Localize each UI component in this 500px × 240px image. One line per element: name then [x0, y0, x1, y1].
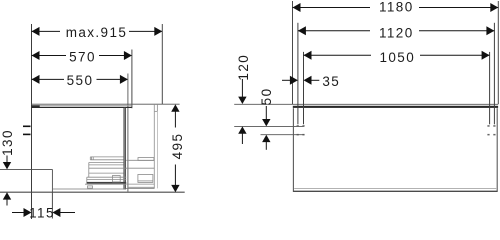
dimension 1050 line right segment [420, 54, 490, 56]
extension line 1050 left [303, 52, 305, 124]
cabinet top slab bottom dark line [32, 106, 132, 108]
svg-text:495: 495 [170, 133, 185, 160]
dimension 130 down arrow [3, 162, 11, 169]
svg-text:35: 35 [322, 74, 340, 89]
dimension 115 arrow pointing right [24, 208, 32, 217]
dimension 550 arrow right [120, 75, 128, 84]
siphon base line 2 [128, 186, 155, 188]
dimension 1180 line left segment [293, 7, 371, 9]
svg-text:550: 550 [67, 73, 94, 88]
extension line 1180 right [497, 1, 499, 104]
small foot bottom left [88, 186, 93, 188]
drawer tray second line [87, 178, 126, 180]
hidden drawer dash marks right column C [487, 125, 489, 127]
drawer tray top line [87, 176, 126, 178]
extension line 570 right [131, 50, 133, 109]
svg-text:570: 570 [69, 49, 96, 64]
dimension max.915 arrow right [154, 27, 162, 36]
extension line 1050 right [489, 52, 491, 124]
dimension 550 arrow left [32, 75, 40, 84]
dimension max.915 line left segment [32, 30, 61, 32]
extension line notch front (115 dim) [51, 192, 53, 218]
svg-text:130: 130 [0, 129, 15, 156]
dimension 495 upper tail [174, 112, 176, 128]
svg-text:1050: 1050 [379, 50, 415, 65]
dimension 1050 arrow right [482, 51, 490, 60]
dimension 120 lower tail [241, 133, 243, 144]
dimension 495 up arrow [171, 104, 179, 111]
dimension 1180 arrow left [293, 3, 301, 12]
dimension 115 lead line left [12, 212, 25, 214]
dimension 570 arrow left [32, 51, 40, 60]
svg-text:120: 120 [236, 54, 251, 81]
console top line side view [32, 103, 180, 105]
cabinet top slab left end bar [32, 105, 40, 108]
small inner box left [113, 176, 121, 182]
drawer box lower line [89, 172, 124, 174]
siphon body box [138, 175, 153, 183]
dimension 35 arrow pointing right [290, 76, 298, 85]
dimension 120 down arrow [238, 97, 246, 104]
extension line max.915 right [161, 24, 163, 104]
svg-text:1120: 1120 [379, 25, 414, 40]
drawer front panel (dark section lines) [124, 108, 127, 190]
drawer box upper line [89, 162, 124, 164]
cabinet top slab inner top line [40, 104, 132, 106]
hidden drawer dash marks left column B [297, 125, 299, 127]
basin apron inner edge [153, 105, 155, 189]
svg-text:115: 115 [29, 205, 55, 220]
toe notch front edge [51, 169, 53, 192]
console slab band front view [293, 106, 498, 108]
dimension 570 arrow right [124, 51, 132, 60]
cabinet bottom line front view [293, 190, 497, 192]
drawer bottom dark band [87, 182, 126, 184]
basin apron step [154, 110, 157, 112]
dimension 120 upper tail [241, 79, 243, 97]
cabinet body left edge front view [292, 108, 294, 192]
dimension 1120 line left segment [298, 30, 370, 32]
cabinet body right edge front view [496, 108, 498, 192]
dimension 1180 arrow right [490, 3, 498, 12]
drawer rail bottom line [90, 159, 123, 161]
extension line 550 / cabinet front face [127, 74, 129, 192]
wire wall extension line (back of cabinet) [31, 24, 33, 219]
dimension 35 arrow pointing left [304, 76, 312, 85]
siphon shelf line [126, 159, 154, 161]
drawer rail tick 2 [92, 157, 94, 160]
dimension 1120 arrow left [298, 26, 306, 35]
dimension 570 line left segment [32, 55, 67, 57]
dimension 35 lead line left [282, 79, 291, 81]
hidden drawer dash marks left column C [302, 125, 304, 127]
dimension 1050 arrow left [304, 51, 312, 60]
extension line for 120/50 dims (drawer runner level) [234, 125, 304, 127]
dimension 570 line right segment [99, 55, 132, 57]
dimension 35 tail right [311, 79, 319, 81]
drawer box mid line [89, 167, 155, 169]
drawer rail left edge [89, 157, 91, 160]
dimension 115 tail right [60, 212, 75, 214]
dimension 495 lower tail [174, 165, 176, 186]
dimension 1120 arrow right [486, 26, 494, 35]
dimension 50 up arrow [262, 135, 270, 142]
drawer box second line [89, 164, 124, 166]
dimension 50 upper tail [265, 106, 267, 119]
wall mounting bracket tick upper [23, 126, 31, 128]
extension line 1180 left [292, 1, 294, 104]
dimension 550 line left segment [32, 78, 65, 80]
siphon top rect [138, 158, 154, 161]
dimension 550 line right segment [97, 78, 128, 80]
svg-text:50: 50 [259, 87, 274, 105]
dimension 50 down arrow [262, 119, 270, 126]
dimension 115 arrow pointing left [52, 208, 60, 217]
dimension max.915 line right segment [129, 30, 162, 32]
dimension 1120 line right segment [419, 30, 494, 32]
svg-text:max.915: max.915 [66, 25, 128, 40]
drawer tray left edge [86, 177, 88, 183]
hidden drawer dash marks right column B [493, 125, 495, 127]
extension line 1120 left [297, 23, 299, 125]
cabinet bottom line extended [0, 191, 185, 193]
console top line front view (extends left for 120 dim) [234, 103, 498, 105]
basin apron outer edge lower part [156, 111, 158, 188]
cabinet inner bottom line [52, 188, 126, 190]
dimension 120 up arrow [238, 126, 246, 133]
basin bottom line [126, 187, 155, 189]
wall mounting bracket tick lower [23, 134, 31, 136]
siphon body inner line [138, 180, 153, 182]
dimension 130 lower tail [6, 199, 8, 205]
svg-text:1180: 1180 [379, 0, 414, 15]
drawer box left edge [88, 163, 90, 178]
basin apron outer edge [156, 105, 158, 112]
drawer rail top line [90, 156, 123, 158]
dimension 130 upper tail [6, 156, 8, 164]
dimension 495 down arrow [171, 185, 179, 192]
toe notch top line [0, 168, 52, 170]
siphon base line 1 [126, 183, 154, 185]
drawer rail tick 1 [91, 157, 93, 160]
extension line 1120 right [493, 23, 495, 125]
extension line for 50 dim lower [261, 134, 304, 136]
dimension 1180 line right segment [419, 7, 498, 9]
drawer base line [85, 183, 126, 185]
dimension 130 up arrow [3, 192, 11, 199]
dimension max.915 arrow left [32, 27, 40, 36]
cabinet bottom inner line front view [294, 188, 496, 190]
dimension 50 lower tail [265, 142, 267, 150]
dimension 1050 line left segment [304, 54, 372, 56]
drawer interior sketch group [85, 157, 155, 188]
